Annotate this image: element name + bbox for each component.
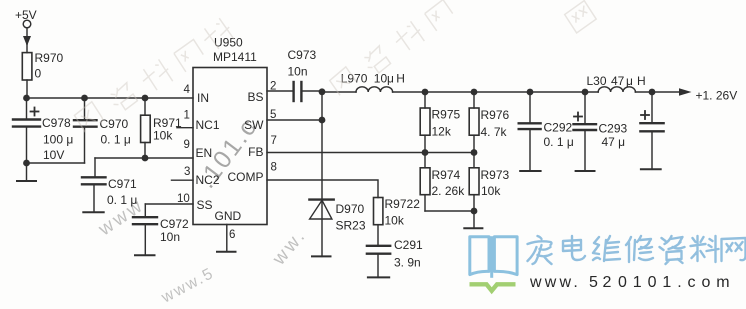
node FB/R975/R974: [422, 149, 429, 156]
svg-text:D970: D970: [336, 202, 365, 216]
ground below C978: [17, 163, 36, 181]
wire bottom link: [27, 162, 85, 164]
node rail/R975: [422, 89, 429, 96]
svg-text:R974: R974: [432, 168, 461, 182]
svg-text:7: 7: [271, 135, 277, 147]
capacitor C972: [133, 204, 157, 255]
svg-text:10n: 10n: [160, 230, 180, 244]
svg-text:5: 5: [270, 109, 276, 121]
svg-text:0: 0: [35, 67, 42, 81]
node IN rail / C970: [81, 95, 88, 102]
svg-text:C291: C291: [394, 238, 423, 252]
svg-text:R9722: R9722: [385, 197, 421, 211]
svg-text:47: 47: [611, 74, 625, 88]
svg-text:MP1411: MP1411: [213, 50, 257, 64]
wire SS line: [145, 203, 193, 205]
svg-text:ww.: ww.: [268, 225, 311, 270]
svg-text:R973: R973: [481, 168, 510, 182]
wire +5V arrow to R970: [26, 44, 28, 53]
svg-text:10V: 10V: [43, 148, 64, 162]
ground below C292: [520, 170, 540, 172]
capacitor C978: [13, 98, 40, 163]
wire SW vertical to D970: [321, 92, 323, 257]
svg-text:C972: C972: [160, 217, 189, 231]
node FB/R976/R973: [471, 149, 478, 156]
svg-text:52: 52: [589, 274, 616, 291]
svg-text:NC1: NC1: [196, 118, 220, 132]
inductor L30: [598, 87, 635, 92]
node rail/C293: [582, 89, 589, 96]
wire IN rail: [27, 97, 194, 99]
wire EN line: [95, 157, 193, 159]
capacitor C293: [574, 92, 597, 171]
svg-text:10k: 10k: [153, 129, 173, 143]
ground below C291: [368, 276, 389, 278]
ground below output cap: [641, 168, 661, 170]
+5V supply terminal: [23, 20, 31, 46]
svg-text:3: 3: [184, 166, 190, 178]
svg-text:www.5: www.5: [158, 265, 217, 307]
ground below pin 6: [217, 251, 236, 253]
node IN rail / C978: [23, 95, 30, 102]
svg-text:1: 1: [184, 110, 190, 122]
diode D970 SR23: [309, 200, 333, 219]
capacitor C971: [82, 158, 106, 212]
capacitor C970: [74, 98, 97, 163]
ground below C293: [576, 170, 595, 172]
svg-text:10k: 10k: [385, 214, 405, 228]
resistor R974: [420, 153, 474, 212]
svg-text:3. 9n: 3. 9n: [394, 256, 421, 270]
wire SW node to L970: [322, 91, 356, 93]
pin 3 NC2 stub: [172, 179, 194, 181]
resistor R976: [469, 92, 479, 153]
svg-text:SS: SS: [197, 198, 213, 212]
resistor R975: [420, 92, 430, 153]
node rail/output cap: [649, 89, 656, 96]
svg-text:47 μ: 47 μ: [602, 135, 626, 149]
watermark logo chinese text jiadian weixiu ziliao wang: [528, 236, 746, 264]
wire L30 to output: [635, 91, 679, 93]
capacitor output unlabeled: [640, 92, 663, 169]
resistor R9722: [374, 198, 383, 246]
svg-text:+5V: +5V: [15, 8, 37, 22]
node BS/SW boost: [319, 88, 326, 95]
watermark logo url www.520101.com: [529, 274, 735, 291]
svg-text:6: 6: [229, 229, 235, 241]
ground below C972: [135, 254, 155, 256]
svg-text:C978: C978: [42, 116, 71, 130]
resistor R970: [22, 53, 32, 80]
svg-text:R976: R976: [481, 108, 510, 122]
svg-text:BS: BS: [247, 90, 263, 104]
svg-text:R970: R970: [35, 51, 64, 65]
node C978/C970 bottom: [23, 160, 30, 167]
watermark logo book icon: [470, 236, 517, 278]
node SW: [319, 117, 326, 124]
output arrow +1.26V: [679, 88, 692, 96]
node rail/R976: [471, 89, 478, 96]
wire COMP pin 8: [267, 180, 378, 198]
svg-text:0. 1 μ: 0. 1 μ: [544, 135, 574, 149]
svg-text:GND: GND: [215, 209, 242, 223]
node IN rail / R971: [142, 95, 149, 102]
svg-text:C971: C971: [108, 177, 137, 191]
svg-text:12k: 12k: [432, 125, 452, 139]
node EN/R971: [142, 155, 149, 162]
op-amp U1: IC U950 MP1411 box: [193, 68, 267, 225]
resistor R971: [141, 98, 151, 158]
inductor L970: [356, 87, 393, 92]
svg-text:C970: C970: [100, 117, 129, 131]
watermark logo green swoosh: [470, 284, 516, 291]
svg-text:2. 26k: 2. 26k: [432, 184, 466, 198]
wire FB pin 7: [267, 152, 474, 154]
wire L970 to output rail: [393, 91, 599, 93]
svg-text:www.: www.: [529, 274, 581, 291]
svg-text:H: H: [637, 74, 646, 88]
node R974/R973 bottom: [471, 208, 478, 215]
svg-text:FB: FB: [248, 145, 263, 159]
svg-text:0101.com: 0101.com: [618, 274, 735, 291]
capacitor C291: [367, 246, 390, 278]
svg-text:2: 2: [270, 81, 276, 93]
svg-text:10: 10: [177, 193, 190, 205]
svg-text:100 μ: 100 μ: [43, 133, 73, 147]
svg-text:0. 1 μ: 0. 1 μ: [101, 133, 131, 147]
svg-text:4. 7k: 4. 7k: [481, 125, 508, 139]
svg-text:IN: IN: [197, 91, 209, 105]
svg-text:C292: C292: [544, 121, 573, 135]
ground below R973: [464, 227, 482, 229]
svg-text:4: 4: [184, 84, 191, 96]
capacitor C973: [294, 82, 322, 101]
svg-text:C973: C973: [288, 48, 317, 62]
pin 1 NC1 stub: [177, 127, 193, 129]
wire SW pin 5: [267, 119, 322, 121]
svg-text:C293: C293: [599, 122, 628, 136]
svg-text:SR23: SR23: [336, 219, 366, 233]
ground below D970: [312, 255, 331, 257]
svg-text:8: 8: [271, 162, 277, 174]
svg-text:H: H: [396, 72, 405, 86]
wire BS pin 2: [267, 90, 294, 92]
svg-text:μ: μ: [626, 74, 633, 88]
svg-text:COMP: COMP: [228, 170, 264, 184]
svg-text:+1. 26V: +1. 26V: [696, 89, 738, 103]
svg-text:L30: L30: [587, 74, 607, 88]
svg-text:10n: 10n: [288, 65, 308, 79]
svg-text:10k: 10k: [481, 184, 501, 198]
svg-text:10: 10: [374, 72, 388, 86]
svg-text:R975: R975: [432, 108, 461, 122]
capacitor C292: [519, 92, 541, 171]
faint scan watermarks: [73, 0, 596, 132]
wire R970 to IN rail: [26, 80, 28, 98]
ground below C971: [83, 211, 103, 213]
pin 6 GND stub: [226, 225, 228, 252]
resistor R973: [469, 153, 479, 229]
node rail/C292: [527, 89, 534, 96]
svg-text:9: 9: [184, 139, 190, 151]
svg-text:μ: μ: [387, 72, 394, 86]
